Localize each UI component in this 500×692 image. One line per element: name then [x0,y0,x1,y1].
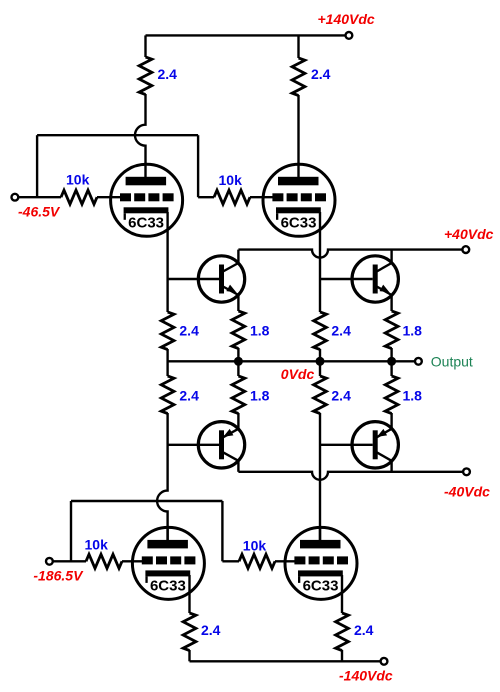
label 1.8 right upper [403,323,423,339]
label 1.8 left upper [250,323,270,339]
wire 2.4 to bottom rail left [188,650,190,661]
label Output [431,354,473,370]
wire V4 cathode lead [341,575,343,613]
svg-text:6C33: 6C33 [281,214,317,231]
wire top-right plate lead lower [297,95,299,165]
svg-text:10k: 10k [66,172,90,188]
resistor 10k top-mid [214,190,250,204]
junction dot left emitter node [234,357,243,366]
svg-text:1.8: 1.8 [403,323,423,339]
terminal -186.5V input [46,558,53,565]
transistor Q2 npn [352,256,398,302]
label -40Vdc [444,484,490,500]
wire 10k to V2 grid [250,196,275,198]
wire mid-left column to V3 plate with hop [157,413,168,545]
wire 10k to V3 grid [122,560,144,562]
svg-text:1.8: 1.8 [403,388,423,404]
label -46.5V [18,204,61,220]
resistor 1.8 right lower [385,376,398,414]
terminal Output [415,358,422,365]
transistor Q1 npn [198,256,244,302]
svg-text:+140Vdc: +140Vdc [318,11,375,27]
wire 1.8 to 0V right [390,348,392,361]
label 10k top-mid [219,172,243,188]
label 2.4 mid-left upper [179,323,199,339]
wire top feedback horizontal [37,134,198,136]
resistor 10k top-left [61,190,97,204]
terminal -40Vdc [463,468,470,475]
resistor 1.8 left upper [232,311,245,349]
svg-text:-186.5V: -186.5V [33,568,84,584]
label 2.4 mid-left lower [179,388,199,404]
wire bottom feedback vertical left [70,501,72,561]
resistor 2.4 mid-left lower [161,376,174,414]
resistor 1.8 right upper [385,311,398,349]
wire 0V to 1.8 right lower [390,361,392,376]
wire Q1 collector up [237,250,239,263]
svg-text:+40Vdc: +40Vdc [444,226,494,242]
svg-text:1.8: 1.8 [250,323,270,339]
wire Q2 collector up [390,250,392,263]
terminal +140Vdc [346,32,353,39]
svg-text:10k: 10k [219,172,243,188]
wire -140Vdc rail [190,660,381,662]
wire input to 10k [18,196,61,198]
wire 0V output rail [168,360,415,362]
resistor 2.4 top-left [139,57,152,95]
svg-text:Output: Output [431,354,473,370]
svg-text:2.4: 2.4 [201,622,221,638]
wire V1 cathode lead [166,212,168,312]
wire 0V to 1.8 left lower [237,361,239,376]
wire top-right plate lead upper [297,35,299,58]
svg-text:6C33: 6C33 [128,214,164,231]
svg-text:-46.5V: -46.5V [18,204,61,220]
svg-text:10k: 10k [243,538,267,554]
label 2.4 top-left [158,66,178,82]
tube V1 6C33 top-left [111,163,183,237]
svg-text:-40Vdc: -40Vdc [444,484,490,500]
resistor 10k bottom-mid [239,554,275,568]
resistor 2.4 mid-right lower [314,376,327,414]
resistor 10k bottom-left [86,554,122,568]
wire Q4 base [320,444,373,446]
svg-text:2.4: 2.4 [158,66,178,82]
wire input2 to 10k [53,560,86,562]
wire Q1 emitter down [237,295,239,311]
wire mid-right column at 0V [319,349,321,376]
svg-text:2.4: 2.4 [179,388,199,404]
label -186.5V [33,568,84,584]
label 1.8 right lower [403,388,423,404]
resistor 1.8 left lower [232,376,245,414]
label +40Vdc [444,226,494,242]
wire corner to 10k top-mid [198,196,214,198]
svg-text:2.4: 2.4 [331,323,351,339]
label 0Vdc [281,366,315,382]
wire +140Vdc rail [146,34,346,36]
svg-text:1.8: 1.8 [250,388,270,404]
transistor Q4 pnp [352,422,398,468]
junction dot mid-right column [316,357,325,366]
svg-text:2.4: 2.4 [354,622,374,638]
svg-text:-140Vdc: -140Vdc [339,668,393,684]
wire Q2 emitter down [390,295,392,311]
label +140Vdc [318,11,375,27]
svg-text:10k: 10k [85,537,109,553]
wire 2.4 to bottom rail right [341,650,343,661]
wire Q3 base [168,444,219,446]
wire mid-right column to V4 plate [319,413,321,545]
wire bottom feedback corner down [221,501,223,561]
wire Q4 collector down [390,461,392,472]
resistor 2.4 top-right [292,58,305,96]
label 2.4 bottom-left [201,622,221,638]
svg-text:2.4: 2.4 [311,66,331,82]
wire +40Vdc rail with hop [238,250,462,258]
wire 1.8 to Q3 emitter [237,413,239,429]
wire 10k to V1 grid [97,196,122,198]
svg-text:2.4: 2.4 [331,388,351,404]
transistor Q3 pnp [198,422,244,468]
wire V2 cathode lead [319,212,321,312]
terminal -46.5V input [12,194,19,201]
wire mid-left column at 0V [166,349,168,376]
terminal -140Vdc [381,658,388,665]
wire -40Vdc rail with hop [238,472,463,480]
tube V3 6C33 bottom-left [132,526,204,600]
resistor 2.4 bottom-right [336,613,349,650]
tube V4 6C33 bottom-right [285,526,357,600]
wire Q1 base [168,278,219,280]
svg-text:2.4: 2.4 [179,323,199,339]
label 2.4 top-right [311,66,331,82]
svg-text:0Vdc: 0Vdc [281,366,315,382]
junction dot right emitter node [387,357,396,366]
terminal +40Vdc [462,246,469,253]
resistor 2.4 mid-right upper [314,312,327,350]
wire 1.8 to Q4 emitter [390,413,392,429]
wire bottom feedback horizontal [71,500,222,502]
wire Q2 base [320,278,373,280]
svg-text:6C33: 6C33 [303,577,339,594]
label 2.4 mid-right lower [331,388,351,404]
tube V2 6C33 top-right [263,163,335,237]
wire 10k to V4 grid [275,560,297,562]
wire V3 cathode lead [188,575,190,613]
wire top feedback vertical left [36,135,38,197]
wire top feedback corner down [197,135,199,197]
wire corner to 10k bottom-mid [222,560,239,562]
label 10k bottom-mid [243,538,267,554]
resistor 2.4 bottom-left [183,613,196,650]
wire Q3 collector down [237,461,239,472]
resistor 2.4 mid-left upper [161,312,174,350]
label 10k top-left [66,172,90,188]
label 2.4 mid-right upper [331,323,351,339]
wire top-left plate lead upper [144,35,146,57]
svg-text:6C33: 6C33 [150,577,186,594]
label 1.8 left lower [250,388,270,404]
label 10k bottom-left [85,537,109,553]
wire 1.8 to 0V left [237,348,239,361]
label 2.4 bottom-right [354,622,374,638]
label -140Vdc [339,668,393,684]
wire top-left plate lead with hop over feedback [135,94,146,165]
